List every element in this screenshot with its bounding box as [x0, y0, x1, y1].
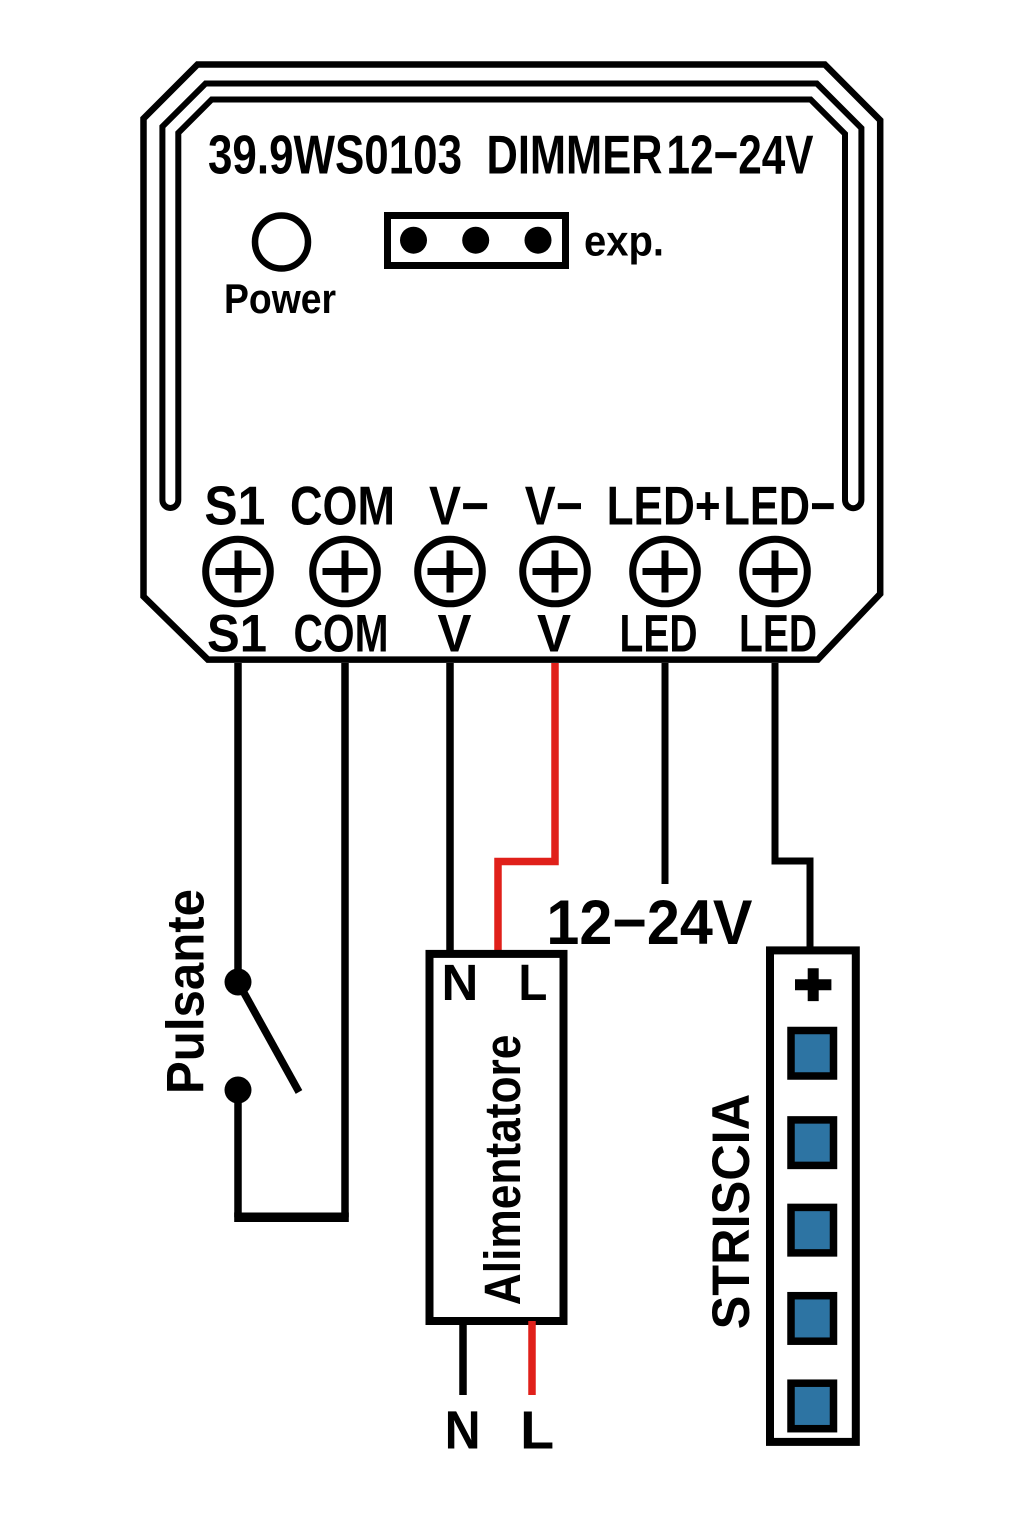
svg-text:V: V [537, 605, 571, 664]
svg-text:LED+: LED+ [607, 475, 721, 537]
screw terminal 1 S1 [206, 539, 271, 604]
svg-text:12−24V: 12−24V [667, 124, 814, 186]
wire LED+ [662, 663, 669, 884]
svg-text:S1: S1 [207, 605, 267, 664]
switch blade [238, 982, 299, 1092]
svg-text:LED−: LED− [723, 475, 835, 537]
svg-text:L: L [518, 954, 547, 1011]
svg-text:Pulsante: Pulsante [157, 889, 216, 1094]
wire switch to COM [238, 663, 345, 1217]
wire V to alimentatore N [446, 663, 454, 953]
dimmer device outline [144, 65, 881, 660]
svg-text:39.9WS0103: 39.9WS0103 [208, 124, 462, 186]
exp connector [388, 216, 566, 266]
device inner spring band [162, 84, 861, 509]
svg-text:COM: COM [290, 475, 395, 537]
svg-text:Alimentatore: Alimentatore [474, 1035, 531, 1306]
wire LED- to strip [775, 663, 810, 950]
svg-text:STRISCIA: STRISCIA [702, 1094, 761, 1330]
Alimentatore box [430, 954, 564, 1321]
exp pin 3 [525, 227, 552, 254]
svg-text:V−: V− [429, 475, 489, 537]
screw terminal 2 COM [313, 539, 378, 604]
screw terminal 5 LED+ [633, 539, 698, 604]
svg-text:COM: COM [294, 605, 389, 664]
strip + mark [795, 968, 831, 1001]
LED chip 2 [791, 1120, 834, 1166]
wire bottom run [234, 1213, 349, 1223]
svg-text:exp.: exp. [584, 218, 664, 266]
power LED circle [255, 216, 308, 269]
svg-text:V−: V− [525, 475, 583, 537]
svg-text:12−24V: 12−24V [546, 888, 752, 958]
svg-text:LED: LED [739, 605, 817, 664]
LED chip 3 [791, 1207, 834, 1253]
red wire V to alimentatore L [498, 663, 555, 953]
LED chip 5 [791, 1383, 834, 1429]
switch contact dot upper [225, 969, 252, 996]
switch contact dot lower [225, 1077, 252, 1104]
svg-text:N: N [441, 954, 478, 1011]
wire alimentatore N out [459, 1321, 467, 1395]
svg-text:N: N [445, 1401, 481, 1461]
LED chip 1 [791, 1031, 834, 1077]
screw terminal 4 V [523, 539, 588, 604]
svg-text:L: L [520, 1401, 554, 1461]
svg-text:S1: S1 [204, 475, 265, 537]
screw terminal 3 V [418, 539, 483, 604]
LED strip body [770, 950, 856, 1442]
exp pin 1 [400, 227, 427, 254]
svg-text:LED: LED [620, 605, 698, 664]
screw terminal 6 LED- [743, 539, 808, 604]
svg-text:Power: Power [224, 275, 336, 322]
svg-text:V: V [438, 605, 472, 664]
LED chip 4 [791, 1296, 834, 1342]
exp pin 2 [462, 227, 489, 254]
svg-text:DIMMER: DIMMER [487, 124, 663, 186]
red wire alimentatore L out [528, 1321, 536, 1395]
wire S1 to switch [234, 663, 242, 975]
